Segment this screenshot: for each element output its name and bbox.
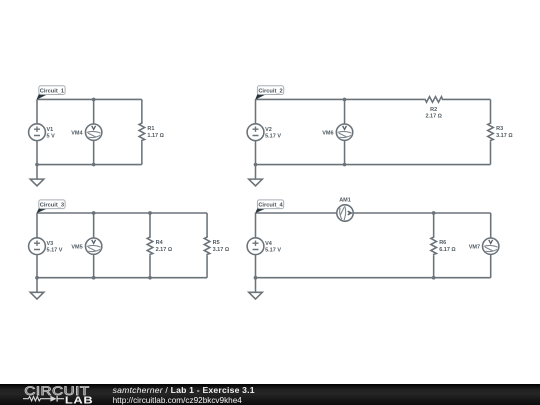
svg-text:V2: V2 [265,127,272,133]
svg-text:VM5: VM5 [71,244,82,250]
svg-text:VM7: VM7 [469,244,480,250]
svg-text:5.17 V: 5.17 V [47,248,63,254]
svg-text:Circuit_1: Circuit_1 [40,88,64,94]
svg-text:3.17 Ω: 3.17 Ω [213,247,229,253]
svg-text:VM6: VM6 [322,130,333,136]
svg-text:5.17 V: 5.17 V [265,134,281,140]
svg-text:3.17 Ω: 3.17 Ω [496,133,512,139]
svg-text:2.17 Ω: 2.17 Ω [156,247,172,253]
svg-text:5 V: 5 V [47,134,56,140]
svg-text:AM1: AM1 [339,198,351,204]
svg-text:R1: R1 [147,126,154,132]
svg-text:R2: R2 [430,107,437,113]
svg-text:Circuit_4: Circuit_4 [258,203,283,209]
svg-text:6.17 Ω: 6.17 Ω [439,247,455,253]
svg-text:V4: V4 [265,241,273,247]
svg-text:2.17 Ω: 2.17 Ω [425,113,441,119]
svg-text:V1: V1 [47,127,54,133]
svg-text:R4: R4 [156,240,164,246]
svg-text:LAB: LAB [65,395,93,405]
svg-text:1.17 Ω: 1.17 Ω [147,133,163,139]
svg-text:R5: R5 [213,240,220,246]
svg-text:R3: R3 [496,126,503,132]
svg-text:Circuit_3: Circuit_3 [40,203,64,209]
svg-text:V3: V3 [47,241,54,247]
svg-text:Circuit_2: Circuit_2 [258,88,282,94]
svg-text:5.17 V: 5.17 V [265,248,281,254]
svg-text:VM4: VM4 [71,130,83,136]
svg-text:R6: R6 [439,240,446,246]
